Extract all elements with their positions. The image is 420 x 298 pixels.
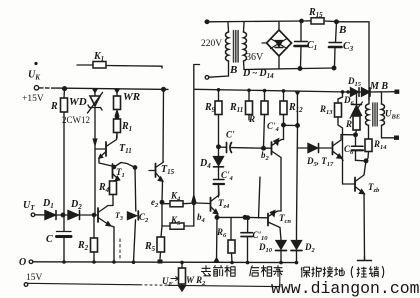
svg-text:Tcn: Tcn <box>279 213 291 225</box>
chinese annotation 保护接地（挂销） (protective earth) <box>301 266 384 278</box>
capacitor C2 (on T2 branch) <box>128 168 139 263</box>
svg-text:C': C' <box>226 130 235 140</box>
resistor R12 <box>261 91 268 148</box>
svg-text:B: B <box>338 24 346 36</box>
junction dot C10 top <box>246 216 250 220</box>
zener diode WD <box>88 89 103 138</box>
resistor R9 <box>215 90 222 147</box>
svg-text:R14: R14 <box>373 139 387 151</box>
transistor Tz4 <box>196 186 219 214</box>
svg-text:D ~ D14: D ~ D14 <box>242 68 274 80</box>
diode D2 <box>68 211 80 220</box>
bridge rectifier D11-D14 <box>262 22 292 69</box>
wire Tcn collector to D10 <box>280 228 281 241</box>
diode D5 <box>298 144 332 153</box>
junction dot D1-D2 <box>61 213 65 217</box>
capacitor C5 (coupling) <box>219 143 264 153</box>
junction feedback/K4 <box>192 201 195 204</box>
capacitor C1 <box>295 19 308 67</box>
svg-text:WD: WD <box>69 96 87 108</box>
junction dot T2 base <box>112 165 115 168</box>
wire T1 emitter to T2 base <box>99 158 112 166</box>
wire b4 to Tcn base <box>217 216 245 218</box>
transistor T7 (pnp) <box>264 125 284 157</box>
capacitor C6 <box>352 135 364 161</box>
resistor K1 <box>77 62 162 69</box>
svg-text:R9: R9 <box>204 102 216 114</box>
wire T2 collector to node <box>121 163 135 168</box>
svg-text:R15: R15 <box>308 7 323 19</box>
svg-text:b4: b4 <box>197 212 206 224</box>
junction dot A1 <box>63 87 67 91</box>
resistor R17 <box>353 116 360 135</box>
svg-text:D15: D15 <box>347 76 362 88</box>
chinese annotation 后相来 (from inverter phase) <box>250 265 283 277</box>
junction dot T2 collector <box>133 166 136 169</box>
svg-text:2CW12: 2CW12 <box>62 115 90 125</box>
svg-text:C'10: C'10 <box>253 230 269 242</box>
svg-text:D4: D4 <box>199 158 211 170</box>
svg-text:Tzb: Tzb <box>368 182 380 194</box>
node MB output bottom <box>394 136 399 140</box>
transistor Tzb <box>343 160 367 194</box>
junction dot A2 <box>92 89 98 94</box>
diode D2b <box>291 228 302 263</box>
rectified bus <box>244 68 334 70</box>
svg-text:D2: D2 <box>70 199 82 211</box>
resistor K4 <box>162 201 191 207</box>
resistor R1 <box>114 119 121 138</box>
svg-text:UF: UF <box>162 276 174 288</box>
svg-text:15V: 15V <box>26 273 43 283</box>
svg-text:R1: R1 <box>121 121 132 133</box>
wire Tz4 emitter down <box>216 214 219 218</box>
junction dot b4 node <box>215 216 219 220</box>
svg-text:D10: D10 <box>258 242 273 254</box>
resistor K5 <box>162 202 194 229</box>
node 220V top terminal <box>205 20 209 24</box>
svg-text:R: R <box>50 101 58 112</box>
svg-text:R2: R2 <box>77 240 89 252</box>
transistor T13 <box>333 135 354 159</box>
svg-text:UK: UK <box>28 70 41 82</box>
wire column from R12 down <box>259 177 261 218</box>
junction dot C1 bottom <box>298 67 302 71</box>
wire T13 emitter join <box>342 158 344 161</box>
svg-text:D2: D2 <box>304 242 316 254</box>
dashed column (scan mark) <box>119 239 121 261</box>
svg-text:C1: C1 <box>307 40 317 52</box>
node UT terminal <box>31 213 35 217</box>
junction dot T7 base wire <box>262 146 266 150</box>
wire b4 node down <box>216 217 219 262</box>
svg-text:UT: UT <box>23 200 35 212</box>
svg-text:R: R <box>248 114 255 124</box>
transformer MB core <box>373 103 377 126</box>
potentiometer WR2 (bottom) <box>171 263 186 292</box>
svg-text:b2: b2 <box>261 150 270 162</box>
junction dot D5 column top <box>296 124 300 128</box>
node UK terminal <box>34 86 38 90</box>
junction dot R2 top <box>92 213 95 216</box>
wire T7 collector down <box>280 158 282 212</box>
svg-text:C: C <box>46 234 53 245</box>
svg-text:www.diangon.com: www.diangon.com <box>271 279 420 298</box>
transistor T5 (mid) <box>149 89 164 181</box>
svg-text:R13: R13 <box>319 104 333 116</box>
wire column D5 feed <box>297 126 298 229</box>
left supply bus <box>56 88 168 89</box>
junction dot Tcn base wire <box>243 216 247 220</box>
wire Tzb emitter down <box>363 194 366 258</box>
transistor Tcn (pnp) <box>245 211 281 228</box>
junction dot A4 <box>162 87 166 91</box>
svg-text:D6: D6 <box>343 95 355 107</box>
svg-text:220V: 220V <box>201 39 222 49</box>
ground stub (protective earth) <box>358 257 372 261</box>
svg-text:O: O <box>19 257 26 268</box>
svg-text:WR: WR <box>123 91 140 103</box>
top supply wire <box>207 20 302 23</box>
junction dots control bus <box>217 88 345 94</box>
diode pair D15 <box>346 88 396 96</box>
svg-text:T11: T11 <box>119 143 132 155</box>
transistor T2 <box>113 163 122 182</box>
junction dot e2 <box>160 201 164 205</box>
svg-text:Tz4: Tz4 <box>218 198 230 210</box>
node -15V terminal <box>24 283 28 287</box>
transformer B secondary coil <box>244 22 247 70</box>
resistor R5 (bottom mid) <box>157 226 165 264</box>
junction dot B <box>335 20 339 24</box>
svg-text:R: R <box>345 119 352 129</box>
svg-text:D1: D1 <box>42 198 54 210</box>
svg-text:B: B <box>229 64 237 76</box>
transistor T1 <box>95 133 117 158</box>
svg-text:T15: T15 <box>161 164 175 176</box>
resistor R13 <box>335 92 343 160</box>
stray dot above UK <box>34 62 37 65</box>
potentiometer WR <box>114 89 121 120</box>
svg-text:UBE: UBE <box>385 109 401 121</box>
transformer B primary coil <box>209 22 229 77</box>
junction dot A3 <box>114 89 120 94</box>
resistor R16 (bottom mid-right) <box>228 218 235 263</box>
wire bus to D5 column <box>296 91 298 126</box>
wire UK to bus <box>40 87 57 89</box>
main control bus (right) <box>195 89 348 92</box>
junction dot coupling cap <box>217 145 221 149</box>
resistor R2 <box>91 215 98 262</box>
resistor R (left) <box>61 89 68 112</box>
node MB output top <box>395 90 400 94</box>
node 220V lower terminal <box>205 76 209 80</box>
chinese annotation 去前相 (to front phase) <box>201 265 235 277</box>
wire WD column down <box>94 145 96 215</box>
wire vertical feedback line <box>194 65 200 197</box>
bottom bus <box>33 261 296 264</box>
resistor R11 <box>246 90 253 120</box>
wire R bottom long vertical <box>63 112 65 215</box>
capacitor C10 <box>241 218 253 263</box>
junction mark on control bus for D5 column <box>294 91 300 96</box>
wire UT to D1 <box>35 214 45 216</box>
wire T5 emitter to e2 node <box>161 181 164 202</box>
node O terminal <box>29 260 33 264</box>
transformer MB secondary <box>382 92 395 138</box>
transformer MB primary <box>366 92 370 126</box>
wire R17/C6 column to collector node <box>356 159 367 162</box>
resistor R10 <box>280 91 287 125</box>
wire T3 emitter down to bottom bus <box>110 226 114 263</box>
arrow up on feedback line <box>192 196 196 203</box>
diode D4 <box>214 147 224 179</box>
svg-text:C3: C3 <box>343 41 354 53</box>
svg-text:R6: R6 <box>216 227 227 239</box>
wire D2 to T3 base <box>80 214 98 216</box>
wire C4 node to D5 column <box>284 124 298 126</box>
junction dot C3 bottom <box>332 66 336 70</box>
svg-text:M B: M B <box>369 81 388 92</box>
zener diode D6 <box>350 92 363 118</box>
transistor T3 <box>98 206 113 226</box>
capacitor C3 <box>329 22 342 66</box>
svg-text:C'4: C'4 <box>267 121 280 133</box>
svg-text:R5: R5 <box>144 241 156 253</box>
svg-text:R4: R4 <box>98 182 110 194</box>
svg-text:R12: R12 <box>288 102 303 114</box>
junction dots bottom bus <box>62 257 298 265</box>
wire node to D2 <box>57 214 68 216</box>
resistor R14 <box>365 125 372 161</box>
wire B to MB transformer <box>337 22 370 100</box>
resistor R4 <box>110 181 117 206</box>
capacitor C (electrolytic) <box>57 215 72 262</box>
svg-text:R11: R11 <box>229 102 243 114</box>
svg-text:C2: C2 <box>139 212 149 224</box>
wire -15V <box>28 283 140 285</box>
diode D10 <box>276 241 287 263</box>
diode D1 <box>45 211 56 220</box>
junction dot C4 <box>282 123 286 127</box>
svg-text:T3: T3 <box>115 211 123 222</box>
resistor R15 <box>302 18 336 24</box>
svg-text:D5, T17: D5, T17 <box>306 156 334 168</box>
svg-text:+15V: +15V <box>22 94 44 104</box>
junction dot Tzb collector <box>364 159 368 163</box>
transformer B core <box>234 31 239 63</box>
junction dot R17/C6 <box>354 133 358 137</box>
wire stub up from -15V line <box>279 270 281 287</box>
arrow down on WD column <box>93 139 96 145</box>
svg-text:36V: 36V <box>246 52 264 63</box>
svg-text:e2: e2 <box>151 197 159 209</box>
wire feedback to K5 <box>193 203 195 226</box>
svg-text:K1: K1 <box>93 51 104 63</box>
capacitor C4b <box>214 180 225 198</box>
